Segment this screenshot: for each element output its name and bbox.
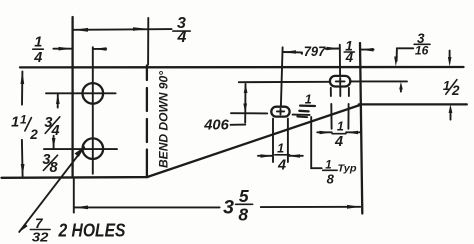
slot S1 right extension down: [348, 88, 350, 96]
svg-text:5: 5: [239, 186, 249, 206]
3/4 holes down arrow: [52, 138, 56, 149]
slot S2 right extension down: [287, 119, 289, 162]
1/4 mid-slot left-pointing arrow: [288, 154, 300, 158]
svg-text:1: 1: [337, 119, 344, 133]
dim line 1/4 below slot S1: [317, 131, 332, 133]
svg-text:BEND DOWN 90°: BEND DOWN 90°: [157, 70, 171, 168]
1/4 TR left-pointing arrow: [361, 48, 374, 52]
svg-text:1: 1: [305, 93, 312, 107]
svg-text:2 HOLES: 2 HOLES: [58, 220, 126, 241]
svg-text:Typ: Typ: [338, 163, 358, 175]
svg-text:8: 8: [327, 172, 335, 187]
.406 down arrow: [243, 104, 247, 113]
hole H2 horizontal centerline: [44, 148, 117, 150]
holes vertical centerline: [92, 47, 94, 174]
3/4 top left arrow: [74, 28, 88, 32]
svg-text:4: 4: [277, 158, 286, 174]
.797 dim line right segment: [326, 48, 339, 50]
svg-text:3: 3: [223, 197, 234, 219]
svg-text:1: 1: [325, 159, 331, 171]
1/4 mid-slot right-pointing arrow: [261, 154, 273, 158]
dim line 1/4 below slot S2: [258, 155, 273, 157]
hole H2 bottom: [83, 138, 104, 159]
bottom-left extension below part: [73, 178, 75, 213]
slot S2 center cross: [277, 110, 284, 112]
svg-text:2: 2: [29, 127, 38, 142]
7/32 tail arrow: [19, 223, 28, 232]
diagonal sheared edge: [148, 105, 360, 177]
svg-text:797: 797: [304, 43, 327, 59]
slot S1 vertical center tick below: [339, 88, 341, 96]
3 5/8 right arrow: [347, 205, 361, 209]
slot S1 top right: [330, 76, 350, 87]
mystery fraction bars right of slot S2: [300, 104, 315, 107]
svg-text:8: 8: [238, 204, 248, 224]
1 1/2 up arrow: [21, 71, 25, 84]
.406 dimension line vertical: [244, 84, 246, 123]
svg-text:4: 4: [334, 134, 343, 150]
fraction bars: [173, 30, 190, 32]
1/8 TYP leader: [310, 117, 312, 168]
1/4 TL right-pointing arrow: [59, 47, 73, 51]
3/4 holes up arrow: [56, 93, 60, 104]
.406 leader horizontal: [231, 124, 246, 126]
slot S1 center cross: [336, 80, 345, 82]
dim line 3/4 between holes: [57, 94, 59, 108]
3 5/8 left arrow: [74, 206, 88, 210]
bend line extension above: [147, 18, 149, 65]
svg-text:16: 16: [415, 46, 429, 58]
bottom-right edge extension line: [359, 103, 467, 105]
dim line 3/4 top: [74, 28, 172, 31]
slot S2 horizontal centerline right dashes: [293, 114, 310, 116]
.797 dim line left segment: [284, 51, 302, 53]
hole H1 top: [83, 83, 104, 104]
1/2 down arrow: [448, 57, 452, 67]
1/4 top-slot right-pointing arrow: [320, 131, 332, 135]
svg-text:1: 1: [277, 141, 284, 155]
svg-text:1: 1: [20, 112, 27, 126]
part right edge with extensions above and below: [360, 43, 362, 214]
7/32 arrow to hole: [75, 146, 86, 157]
1/2 top arrow tail: [449, 51, 451, 61]
part top edge with extensions: [20, 66, 464, 69]
svg-text:3: 3: [417, 31, 425, 46]
dim line 1 1/2 segments: [21, 71, 23, 104]
dim line 1/4 top-left segments: [53, 48, 72, 50]
svg-text:406: 406: [203, 116, 229, 133]
svg-text:4: 4: [177, 29, 187, 46]
slot S2 vertical centerline above: [281, 47, 283, 106]
slot S1 left extension down: [330, 88, 332, 96]
3/16 up arrow: [399, 82, 403, 90]
1/2 up arrow: [449, 104, 453, 113]
dim line 3 5/8 segments: [74, 206, 219, 208]
1/4 TL left-pointing arrow: [93, 47, 106, 51]
3/16 lower arrow tail: [400, 88, 402, 92]
svg-text:1: 1: [34, 34, 42, 50]
svg-text:1: 1: [443, 78, 450, 93]
slot S1 vertical extension above: [339, 45, 341, 76]
part bottom edge of left tab with left extension: [2, 176, 148, 179]
hole H1 horizontal centerline: [46, 92, 116, 94]
svg-text:8: 8: [50, 160, 59, 176]
svg-text:4: 4: [33, 50, 42, 66]
svg-text:32: 32: [32, 229, 49, 244]
1/4 top-right arrow tail: [361, 49, 374, 51]
svg-text:1: 1: [11, 115, 19, 131]
slot S1 horizontal centerline right: [351, 80, 407, 82]
slot S2 middle: [271, 107, 289, 117]
.406 up arrow: [244, 84, 248, 93]
.797 left arrow: [284, 50, 296, 54]
svg-text:4: 4: [345, 50, 354, 65]
slot S2 horizontal centerline left: [231, 112, 267, 114]
7/32 leader: [19, 147, 84, 232]
.797 right arrow: [327, 47, 339, 51]
svg-text:4: 4: [51, 123, 60, 139]
3/4 top right arrow: [133, 27, 147, 31]
3/16 down arrow: [394, 57, 398, 67]
3/16 leader elbow: [397, 47, 413, 49]
svg-text:2: 2: [451, 83, 460, 98]
1/2 bottom arrow tail: [450, 111, 452, 120]
slot S2 left extension down: [272, 119, 274, 162]
fraction slashes: [45, 117, 60, 134]
slot S1 horizontal centerline left: [239, 81, 329, 83]
bend line (dashed): [146, 66, 148, 81]
1 1/2 down arrow: [21, 164, 25, 176]
1/4 top-slot left-pointing arrow: [346, 131, 358, 135]
part left edge with upper extension: [71, 17, 73, 177]
